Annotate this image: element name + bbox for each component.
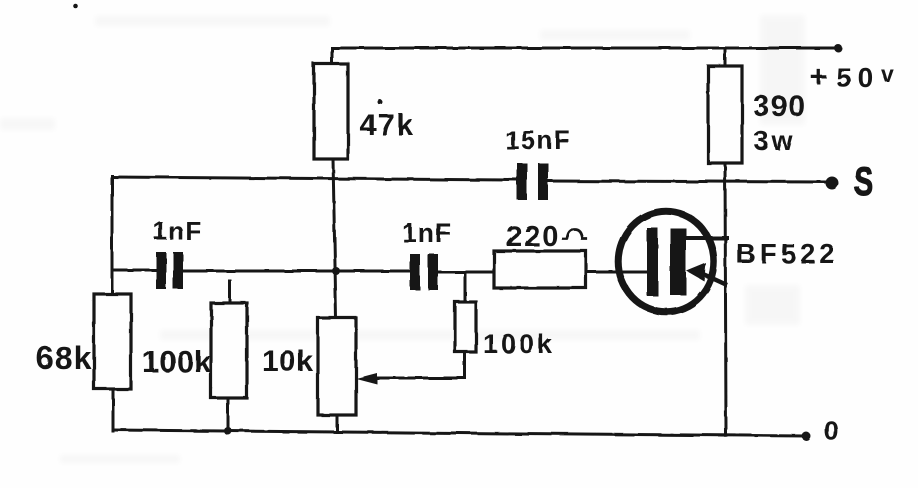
svg-text:10k: 10k — [262, 345, 314, 378]
svg-text:1nF: 1nF — [402, 218, 452, 248]
svg-text:100k: 100k — [483, 329, 555, 359]
svg-text:390: 390 — [753, 90, 806, 123]
svg-text:0: 0 — [824, 416, 839, 446]
svg-text:15nF: 15nF — [505, 125, 572, 155]
svg-text:100k: 100k — [142, 344, 212, 379]
svg-text:220: 220 — [506, 221, 560, 253]
svg-text:+: + — [810, 61, 828, 94]
svg-text:v: v — [881, 61, 894, 87]
svg-text:S: S — [854, 159, 873, 204]
svg-text:1nF: 1nF — [153, 216, 202, 246]
svg-text:BF522: BF522 — [736, 238, 839, 269]
svg-text:3w: 3w — [754, 126, 796, 156]
svg-text:50: 50 — [836, 62, 879, 93]
svg-text:47k: 47k — [360, 109, 415, 142]
svg-text:68k: 68k — [36, 340, 92, 376]
